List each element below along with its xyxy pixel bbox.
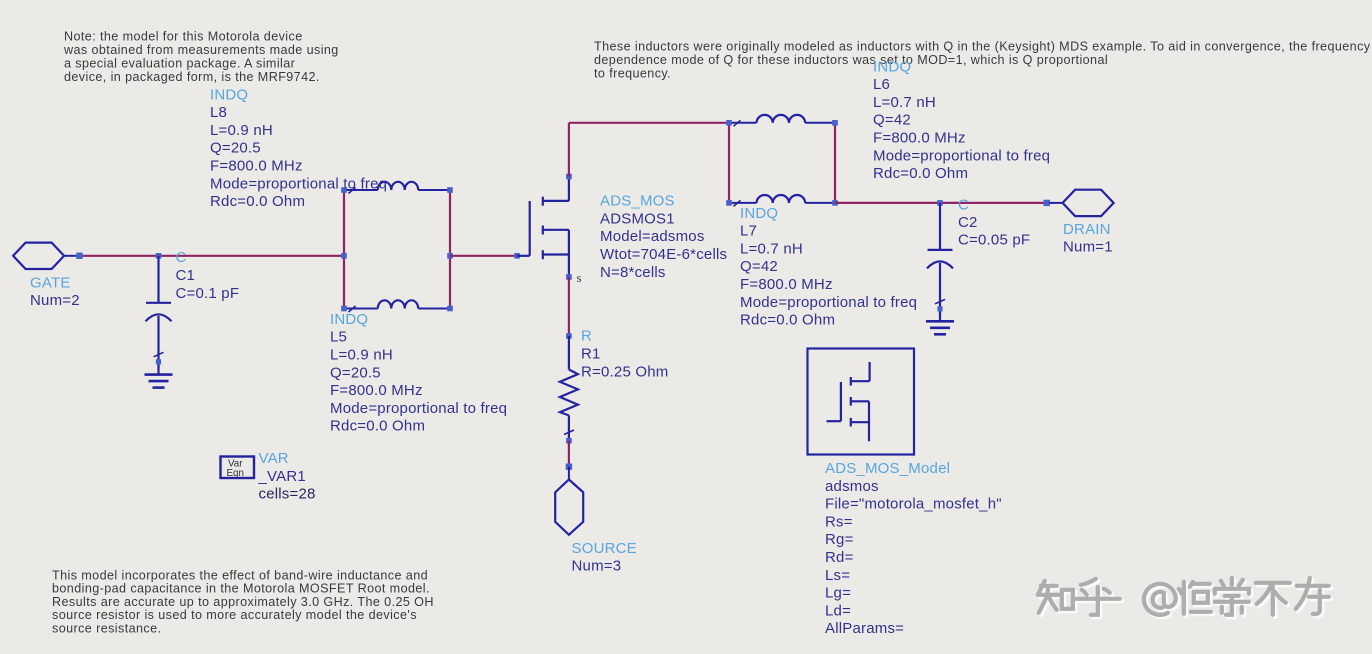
L7 value labels — [740, 205, 917, 329]
svg-text:L=0.7 nH: L=0.7 nH — [873, 94, 936, 111]
svg-text:Num=3: Num=3 — [572, 558, 622, 575]
junction node loop2 top-left — [726, 120, 732, 126]
svg-text:was obtained from measurements: was obtained from measurements made usin… — [63, 43, 339, 57]
svg-text:R=0.25 Ohm: R=0.25 Ohm — [581, 364, 668, 381]
svg-text:Ld=: Ld= — [825, 602, 851, 619]
GATE pin lead — [64, 255, 77, 257]
port DRAIN (P1) — [1063, 190, 1114, 216]
junction node loop2 bot-right — [832, 200, 838, 206]
svg-text:Ls=: Ls= — [825, 567, 850, 584]
svg-text:Mode=proportional to freq: Mode=proportional to freq — [740, 294, 917, 311]
ground (below C2) — [926, 313, 954, 334]
SOURCE pin node — [566, 464, 572, 470]
svg-text:INDQ: INDQ — [873, 58, 911, 75]
svg-text:Num=2: Num=2 — [30, 292, 80, 309]
svg-text:C: C — [176, 249, 187, 266]
svg-text:C: C — [958, 197, 969, 214]
VAR equation box _VAR1 — [221, 457, 255, 480]
wire: GATE to L8/L5 loop — [83, 255, 344, 257]
svg-text:R: R — [581, 328, 592, 345]
svg-text:Lg=: Lg= — [825, 585, 851, 602]
MOSFET source pin node — [566, 274, 572, 280]
L6 value labels — [873, 58, 1050, 182]
svg-text:Num=1: Num=1 — [1063, 239, 1113, 256]
svg-text:s: s — [577, 270, 582, 285]
svg-text:L=0.7 nH: L=0.7 nH — [740, 240, 803, 257]
transistor ADSMOS1 (MOSFET symbol) — [517, 177, 569, 278]
svg-text:adsmos: adsmos — [825, 478, 879, 495]
svg-text:L=0.9 nH: L=0.9 nH — [330, 347, 393, 364]
svg-text:F=800.0 MHz: F=800.0 MHz — [330, 382, 423, 399]
wire: loop2 left vertical — [728, 123, 730, 203]
svg-text:L7: L7 — [740, 223, 757, 240]
svg-text:Results are accurate up to app: Results are accurate up to approximately… — [52, 595, 434, 609]
capacitor C1 — [146, 256, 172, 368]
L8 value labels — [210, 86, 387, 210]
svg-text:ADS_MOS_Model: ADS_MOS_Model — [825, 460, 950, 477]
wire: loop1 right vertical — [449, 190, 451, 309]
svg-text:source resistor is used to mor: source resistor is used to more accurate… — [52, 608, 417, 622]
svg-text:C2: C2 — [958, 214, 978, 231]
svg-text:GATE: GATE — [30, 274, 71, 291]
junction node loop1 bot-left — [341, 306, 347, 312]
svg-text:Q=42: Q=42 — [740, 258, 778, 275]
junction node at C1 — [156, 253, 162, 259]
inductor L8 — [344, 182, 450, 194]
svg-text:F=800.0 MHz: F=800.0 MHz — [740, 276, 833, 293]
ADS_MOS_Model box (adsmos) — [808, 349, 915, 455]
DRAIN pin node — [1044, 200, 1050, 206]
svg-text:These inductors were originall: These inductors were originally modeled … — [594, 40, 1371, 54]
resistor R1 — [560, 333, 578, 443]
junction node loop1 mid-right — [447, 253, 453, 259]
svg-text:Rdc=0.0 Ohm: Rdc=0.0 Ohm — [330, 418, 425, 435]
svg-text:DRAIN: DRAIN — [1063, 221, 1111, 238]
svg-text:N=8*cells: N=8*cells — [600, 264, 666, 281]
GATE pin node — [76, 253, 82, 259]
svg-text:File="motorola_mosfet_h": File="motorola_mosfet_h" — [825, 496, 1002, 513]
wire: R1 to SOURCE port — [568, 441, 570, 467]
svg-text:This model incorporates the ef: This model incorporates the effect of ba… — [52, 569, 428, 583]
svg-text:C=0.1 pF: C=0.1 pF — [176, 285, 240, 302]
junction node at C2 — [937, 200, 943, 206]
svg-text:SOURCE: SOURCE — [572, 540, 637, 557]
svg-text:_VAR1: _VAR1 — [258, 468, 306, 485]
ADS_MOS_Model labels — [825, 460, 1002, 637]
note text (top-right) — [594, 40, 1371, 81]
svg-text:a special evaluation package.: a special evaluation package. A similar — [64, 56, 295, 70]
SOURCE pin lead — [568, 467, 570, 480]
svg-text:INDQ: INDQ — [740, 205, 778, 222]
svg-text:Q=20.5: Q=20.5 — [210, 140, 261, 157]
svg-text:Eqn: Eqn — [227, 468, 244, 479]
note text (top-left) — [63, 29, 339, 84]
C1 value labels — [176, 249, 240, 302]
svg-text:bonding-pad capacitance in the: bonding-pad capacitance in the Motorola … — [52, 582, 430, 596]
svg-text:Rdc=0.0 Ohm: Rdc=0.0 Ohm — [873, 165, 968, 182]
junction node loop1 bot-right — [447, 306, 453, 312]
svg-text:ADS_MOS: ADS_MOS — [600, 193, 675, 210]
junction node loop2 bot-left — [726, 200, 732, 206]
svg-text:INDQ: INDQ — [210, 86, 248, 103]
svg-text:C1: C1 — [176, 267, 196, 284]
svg-text:Mode=proportional to freq: Mode=proportional to freq — [330, 400, 507, 417]
watermark 知乎 @恒常不存 — [1038, 578, 1331, 617]
wire: loop1 left vertical — [343, 190, 345, 309]
junction node at MOSFET gate — [514, 253, 520, 259]
svg-text:dependence mode of Q for these: dependence mode of Q for these inductors… — [594, 53, 1108, 67]
svg-text:L8: L8 — [210, 104, 227, 121]
svg-text:F=800.0 MHz: F=800.0 MHz — [873, 130, 966, 147]
svg-text:Mode=proportional to freq: Mode=proportional to freq — [873, 147, 1050, 164]
svg-text:INDQ: INDQ — [330, 311, 368, 328]
svg-text:VAR: VAR — [259, 450, 289, 467]
note text (bottom-left) — [52, 569, 434, 636]
junction node loop1 top-left — [341, 187, 347, 193]
svg-text:R1: R1 — [581, 346, 601, 363]
svg-text:Rdc=0.0 Ohm: Rdc=0.0 Ohm — [210, 193, 305, 210]
svg-text:Rd=: Rd= — [825, 549, 854, 566]
SOURCE port labels — [572, 540, 637, 575]
ground (below C1) — [145, 367, 173, 388]
junction node loop1 top-right — [447, 187, 453, 193]
svg-text:Q=20.5: Q=20.5 — [330, 364, 381, 381]
svg-text:to frequency.: to frequency. — [594, 67, 671, 81]
inductor L7 — [729, 195, 835, 206]
svg-text:device, in packaged form, is t: device, in packaged form, is the MRF9742… — [64, 70, 320, 84]
svg-text:L=0.9 nH: L=0.9 nH — [210, 122, 273, 139]
R1 value labels — [581, 328, 668, 381]
svg-text:cells=28: cells=28 — [259, 486, 316, 503]
wire: drain rail to loop2 — [569, 122, 729, 124]
port SOURCE (P3) — [555, 480, 583, 535]
MOSFET drain pin node — [566, 174, 572, 180]
GATE port labels — [30, 274, 80, 309]
wire: loop2 right vertical — [834, 123, 836, 203]
svg-text:Note: the model for this Motor: Note: the model for this Motorola device — [64, 29, 303, 43]
wire: MOSFET source to R1 — [568, 277, 570, 336]
wire: MOSFET drain up — [568, 123, 570, 177]
DRAIN port labels — [1063, 221, 1113, 256]
svg-text:Rg=: Rg= — [825, 531, 854, 548]
capacitor C2 — [927, 203, 953, 315]
svg-text:source resistance.: source resistance. — [52, 621, 161, 635]
wire: loop1 to MOSFET gate — [450, 255, 517, 257]
VAR labels — [258, 450, 316, 502]
svg-text:F=800.0 MHz: F=800.0 MHz — [210, 158, 303, 175]
ADSMOS1 value labels — [600, 193, 727, 281]
DRAIN pin lead — [1049, 202, 1063, 204]
svg-text:Model=adsmos: Model=adsmos — [600, 228, 705, 245]
svg-text:ADSMOS1: ADSMOS1 — [600, 210, 675, 227]
L5 value labels — [330, 311, 507, 435]
junction node loop1 mid-left — [341, 253, 347, 259]
svg-text:L5: L5 — [330, 329, 347, 346]
junction node loop2 top-right — [832, 120, 838, 126]
port GATE (P2) — [13, 243, 64, 269]
svg-text:Q=42: Q=42 — [873, 112, 911, 129]
inductor L6 — [729, 115, 835, 126]
svg-text:Wtot=704E-6*cells: Wtot=704E-6*cells — [600, 246, 727, 263]
C2 value labels — [958, 197, 1030, 249]
svg-text:L6: L6 — [873, 76, 890, 93]
svg-text:AllParams=: AllParams= — [825, 620, 904, 637]
inductor L5 — [344, 300, 450, 312]
wire: loop2 to DRAIN port — [835, 202, 1044, 204]
svg-text:C=0.05 pF: C=0.05 pF — [958, 231, 1030, 248]
svg-text:Rdc=0.0 Ohm: Rdc=0.0 Ohm — [740, 312, 835, 329]
svg-text:Rs=: Rs= — [825, 513, 853, 530]
